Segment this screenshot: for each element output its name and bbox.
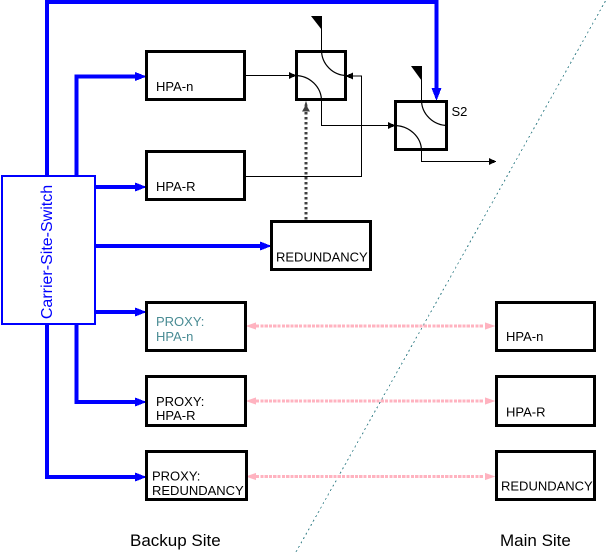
svg-text:Backup Site: Backup Site <box>130 531 221 550</box>
svg-text:Main Site: Main Site <box>500 531 571 550</box>
svg-text:REDUNDANCY: REDUNDANCY <box>152 483 244 498</box>
svg-text:REDUNDANCY: REDUNDANCY <box>276 250 368 265</box>
svg-text:PROXY:: PROXY: <box>156 394 204 409</box>
svg-text:REDUNDANCY: REDUNDANCY <box>501 479 593 494</box>
svg-text:HPA-n: HPA-n <box>506 329 543 344</box>
svg-text:HPA-n: HPA-n <box>156 79 193 94</box>
svg-text:PROXY:: PROXY: <box>152 469 200 484</box>
svg-text:Carrier-Site-Switch: Carrier-Site-Switch <box>39 185 56 319</box>
svg-text:HPA-R: HPA-R <box>156 408 195 423</box>
svg-text:HPA-R: HPA-R <box>506 405 545 420</box>
svg-text:PROXY:: PROXY: <box>156 314 204 329</box>
svg-text:HPA-n: HPA-n <box>156 329 193 344</box>
svg-text:S2: S2 <box>452 104 468 119</box>
svg-text:HPA-R: HPA-R <box>156 179 195 194</box>
